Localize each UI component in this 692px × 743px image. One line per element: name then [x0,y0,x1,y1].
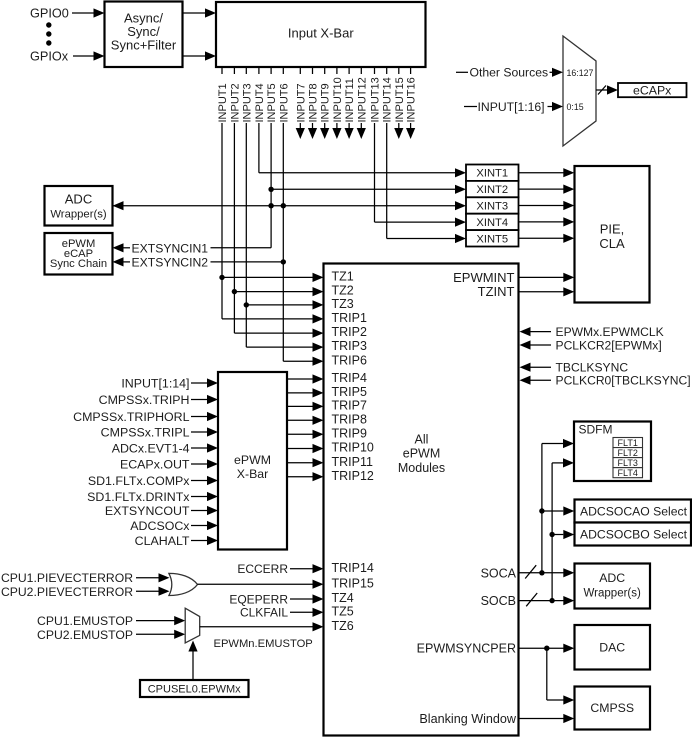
mux eCAP input select (trapezoid) [563,36,596,146]
svg-text:DAC: DAC [599,641,625,655]
svg-text:SDFM: SDFM [579,423,613,437]
wire EQEPERR to TZ4 [290,598,313,600]
svg-text:TRIP15: TRIP15 [332,576,374,590]
pin TRIP15 arrow into All ePWM Modules [313,580,324,589]
svg-text:EPWMINT: EPWMINT [453,270,514,285]
svg-text:INPUT6: INPUT6 [278,83,290,122]
svg-text:Blanking Window: Blanking Window [419,712,517,726]
wire EXTSYNCIN2 into Sync Chain [113,257,284,266]
block ADC Wrapper(s) (right) [575,564,651,609]
wire CLKFAIL to TZ5 [290,611,313,613]
junction dot INPUT6 / EXTSYNCIN2 [281,259,286,264]
svg-text:TZINT: TZINT [478,284,515,299]
svg-text:TRIP4: TRIP4 [332,371,367,385]
wire XINT3 to PIE/CLA [519,201,575,210]
svg-text:Wrapper(s): Wrapper(s) [50,209,107,221]
wire INPUT13 to XINT4 (corner) [375,218,467,227]
svg-text:PCLKCR0[TBCLKSYNC]: PCLKCR0[TBCLKSYNC] [556,374,691,388]
junction dot SOCA/ADCSOCAO [539,508,544,513]
svg-text:TRIP5: TRIP5 [332,385,367,399]
wire to ADCSOCBO Select [552,530,574,539]
wire SOCB to ADC Wrapper(s) with bus slash [520,593,575,606]
wire TBCLKSYNC into All ePWM Modules (left arrow) [520,363,552,372]
svg-text:INPUT1: INPUT1 [217,83,229,122]
wire INPUT[1:16] into mux [464,102,563,111]
svg-text:CLKFAIL: CLKFAIL [240,606,288,620]
svg-text:INPUT7: INPUT7 [295,83,307,122]
wire TRIP5 from ePWM X-Bar [287,392,313,394]
svg-text:INPUT16: INPUT16 [406,77,418,122]
svg-text:16:127: 16:127 [567,68,594,78]
pin TZ3 arrow into All ePWM Modules [313,300,324,309]
svg-text:CPU1.PIEVECTERROR: CPU1.PIEVECTERROR [1,571,133,585]
svg-text:CPU2.PIEVECTERROR: CPU2.PIEVECTERROR [1,585,133,599]
wire TZ2 [234,291,312,293]
svg-text:INPUT12: INPUT12 [356,77,368,122]
block CMPSS [575,687,651,730]
wire INPUT7 (vertical from Input X-Bar) [296,67,305,139]
junction dot SOCB [549,598,554,603]
svg-text:TRIP9: TRIP9 [332,426,367,440]
svg-text:SOCB: SOCB [481,594,516,608]
svg-text:INPUT2: INPUT2 [229,83,241,122]
svg-text:INPUT15: INPUT15 [394,77,406,122]
svg-text:XINT5: XINT5 [476,233,508,245]
svg-text:CMPSSx.TRIPL: CMPSSx.TRIPL [101,425,190,439]
wire TZINT to PIE/CLA [520,287,575,296]
svg-text:TZ6: TZ6 [332,619,354,633]
svg-text:XINT1: XINT1 [476,168,508,180]
junction dot INPUT2/TZ2 [232,289,237,294]
block ADCSOCBO Select [575,523,692,546]
wire TRIP6 (from INPUT6 corner) [283,360,312,362]
svg-text:XINT4: XINT4 [476,217,508,229]
svg-text:ADCSOCBO Select: ADCSOCBO Select [580,528,688,542]
wire INPUT11 (vertical from Input X-Bar) [345,67,354,139]
wire XINT2 to PIE/CLA [519,185,575,194]
junction dot INPUT3/TZ3 [244,302,249,307]
svg-text:Sync Chain: Sync Chain [50,258,107,270]
wire ECAPx.OUT into ePWM X-Bar [191,459,218,468]
block eCAPx [618,83,687,97]
wire ADC Wrapper(s) / XINT3 shared line [113,201,467,210]
svg-text:TRIP12: TRIP12 [332,469,374,483]
svg-text:TRIP7: TRIP7 [332,399,367,413]
wire ECCERR to TRIP14 [290,568,313,570]
wire PCLKCR0[TBCLKSYNC] into All ePWM Modules (left arrow) [520,376,552,385]
svg-text:TRIP2: TRIP2 [332,325,367,339]
wire XINT5 to PIE/CLA [519,234,575,243]
svg-text:SD1.FLTx.DRINTx: SD1.FLTx.DRINTx [87,490,190,504]
pin TRIP14 arrow into All ePWM Modules [313,564,324,573]
junction dot SOCB/ADCSOCBO [549,532,554,537]
block PIE, CLA [575,166,650,303]
svg-text:TZ1: TZ1 [332,270,354,284]
svg-text:INPUT[1:16]: INPUT[1:16] [478,100,545,114]
pin TRIP6 arrow into All ePWM Modules [313,357,324,366]
svg-text:Wrapper(s): Wrapper(s) [584,587,641,599]
wire TRIP1 (from INPUT1 corner) [222,318,313,320]
pin TRIP11 arrow into All ePWM Modules [313,458,324,467]
svg-text:SOCA: SOCA [481,566,517,580]
svg-text:INPUT5: INPUT5 [266,83,278,122]
pin TRIP3 arrow into All ePWM Modules [313,343,324,352]
svg-text:INPUT4: INPUT4 [254,83,266,122]
svg-text:ECCERR: ECCERR [237,562,288,576]
svg-text:TRIP10: TRIP10 [332,441,374,455]
svg-text:TRIP3: TRIP3 [332,339,367,353]
wire INPUT14 to XINT5 (corner) [387,234,466,243]
wire SD1.FLTx.COMPx into ePWM X-Bar [191,476,218,485]
wire EXTSYNCIN1 into Sync Chain [113,243,272,252]
pin TRIP9 arrow into All ePWM Modules [313,430,324,439]
svg-text:TRIP1: TRIP1 [332,311,367,325]
wire TRIP7 from ePWM X-Bar [287,405,313,407]
svg-text:ADC: ADC [599,571,625,585]
svg-text:PCLKCR2[EPWMx]: PCLKCR2[EPWMx] [556,338,662,352]
wire CPU2.PIEVECTERROR to OR gate [136,587,170,596]
svg-text:ADCx.EVT1-4: ADCx.EVT1-4 [112,441,190,455]
wire INPUT2 (vertical from Input X-Bar) [233,67,235,333]
wire SOCA to ADC Wrapper(s) with bus slash [520,565,575,578]
svg-text:EPWMn.EMUSTOP: EPWMn.EMUSTOP [214,638,313,650]
svg-text:TRIP6: TRIP6 [332,353,367,367]
svg-text:INPUT[1:14]: INPUT[1:14] [121,376,189,390]
wire mux output to TZ6 [200,626,313,628]
svg-text:TRIP11: TRIP11 [332,455,373,469]
wire TRIP4 from ePWM X-Bar [287,378,313,380]
svg-text:CLA: CLA [599,236,625,251]
svg-text:INPUT9: INPUT9 [320,83,332,122]
junction dot SOCA [539,570,544,575]
wire INPUT10 (vertical from Input X-Bar) [332,67,341,139]
block FLT2 (inside SDFM) [613,448,643,458]
svg-text:CLAHALT: CLAHALT [135,534,190,548]
wire SOCB up to SDFM (vertical) [552,458,574,600]
svg-text:INPUT13: INPUT13 [370,77,382,122]
pin TZ5 arrow into All ePWM Modules [313,608,324,617]
block XINT5 [466,230,519,246]
svg-text:FLT1: FLT1 [618,438,638,448]
wire CMPSSx.TRIPH into ePWM X-Bar [191,395,218,404]
pin TZ1 arrow into All ePWM Modules [313,273,324,282]
svg-text:EPWMSYNCPER: EPWMSYNCPER [417,642,516,656]
svg-text:XINT2: XINT2 [476,184,508,196]
wire GPIO0 to Async block [72,8,105,17]
svg-text:CPU1.EMUSTOP: CPU1.EMUSTOP [37,614,133,628]
svg-text:GPIO0: GPIO0 [30,7,69,21]
block ADC Wrapper(s) (left) [45,186,113,226]
wire Async to Input X-Bar (lower) [183,51,217,60]
svg-text:ePWM: ePWM [234,453,271,467]
wire EPWMINT to PIE/CLA [520,273,575,282]
pin TRIP8 arrow into All ePWM Modules [313,416,324,425]
svg-text:Input X-Bar: Input X-Bar [288,26,354,41]
wire INPUT3 (vertical from Input X-Bar) [245,67,247,347]
wire SD1.FLTx.DRINTx into ePWM X-Bar [191,492,218,501]
wire TZ3 [246,304,312,306]
ellipsis dots between GPIO0 and GPIOx [46,22,51,45]
svg-text:EPWMx.EPWMCLK: EPWMx.EPWMCLK [556,325,664,339]
svg-text:Sync+Filter: Sync+Filter [111,38,177,53]
pin TRIP10 arrow into All ePWM Modules [313,444,324,453]
wire Blanking Window to CMPSS [520,714,575,723]
block XINT1 [466,165,519,181]
wire TRIP2 (from INPUT2 corner) [234,332,312,334]
svg-text:TRIP14: TRIP14 [332,561,374,575]
svg-text:FLT4: FLT4 [618,468,638,478]
svg-text:TZ4: TZ4 [332,591,354,605]
svg-text:ePWM: ePWM [403,447,441,461]
wire INPUT15 (vertical from Input X-Bar) [394,67,403,139]
block XINT2 [466,181,519,197]
svg-text:INPUT14: INPUT14 [382,77,394,122]
junction dot INPUT6 on ADC line [281,203,286,208]
svg-text:SD1.FLTx.COMPx: SD1.FLTx.COMPx [88,474,190,488]
block Async/Sync/Sync+Filter [105,2,183,68]
svg-text:CPU2.EMUSTOP: CPU2.EMUSTOP [37,628,133,642]
block Input X-Bar [216,2,426,67]
wire CPUSEL0.EPWMx select into mux (up arrow) [188,641,197,681]
wire TRIP8 from ePWM X-Bar [287,419,313,421]
wire INPUT13 (vertical from Input X-Bar) [374,67,376,222]
wire TRIP11 from ePWM X-Bar [287,462,313,464]
wire mux output to eCAPx with bus slash [596,85,618,94]
block All ePWM Modules [324,264,519,736]
svg-text:EXTSYNCIN2: EXTSYNCIN2 [132,256,209,270]
wire XINT1 to PIE/CLA [519,168,575,177]
block ADCSOCAO Select [575,500,692,523]
wire Other Sources into mux [456,68,563,77]
block FLT1 (inside SDFM) [613,438,643,448]
pin TRIP12 arrow into All ePWM Modules [313,472,324,481]
svg-text:CMPSS: CMPSS [590,701,634,715]
pin TRIP1 arrow into All ePWM Modules [313,314,324,323]
wire INPUT[1:14] into ePWM X-Bar [191,378,218,387]
svg-text:EXTSYNCOUT: EXTSYNCOUT [105,504,190,518]
svg-text:FLT2: FLT2 [618,448,638,458]
svg-text:GPIOx: GPIOx [30,50,69,64]
block FLT4 (inside SDFM) [613,468,643,478]
wire INPUT8 (vertical from Input X-Bar) [308,67,317,139]
pin TZ2 arrow into All ePWM Modules [313,287,324,296]
block SDFM [574,422,651,482]
wire TZ1 [222,276,313,278]
wire to ADCSOCAO Select [542,506,574,515]
mux EMUSTOP select (trapezoid) [185,608,200,643]
wire TRIP10 from ePWM X-Bar [287,448,313,450]
svg-text:PIE,: PIE, [600,221,625,236]
pin TRIP4 arrow into All ePWM Modules [313,374,324,383]
pin TRIP7 arrow into All ePWM Modules [313,402,324,411]
wire EPWMSYNCPER to DAC [520,644,575,653]
wire PCLKCR2[EPWMx] into All ePWM Modules (left arrow) [520,340,552,349]
junction dot INPUT5 on ADC line [268,203,273,208]
svg-text:TZ2: TZ2 [332,284,354,298]
svg-text:TRIP8: TRIP8 [332,412,367,426]
svg-text:INPUT3: INPUT3 [241,83,253,122]
svg-text:TZ3: TZ3 [332,297,354,311]
svg-text:All: All [415,432,429,446]
svg-text:CMPSSx.TRIPHORL: CMPSSx.TRIPHORL [73,410,189,424]
wire CMPSSx.TRIPL into ePWM X-Bar [191,427,218,436]
svg-text:ADCSOCx: ADCSOCx [130,519,190,533]
block XINT4 [466,214,519,230]
svg-text:TBCLKSYNC: TBCLKSYNC [556,361,629,375]
svg-text:INPUT10: INPUT10 [332,77,344,122]
block CPUSEL0.EPWMx [140,680,249,697]
wire CMPSSx.TRIPHORL into ePWM X-Bar [191,412,218,421]
block ePWM X-Bar [218,372,287,550]
wire INPUT4 (vertical from Input X-Bar) [258,67,260,173]
wire CPU1.EMUSTOP to mux [136,616,185,625]
wire OR gate output to TRIP15 [198,583,313,585]
pin TRIP5 arrow into All ePWM Modules [313,388,324,397]
wire INPUT1 (vertical from Input X-Bar) [221,67,223,319]
svg-text:INPUT11: INPUT11 [344,78,356,122]
svg-text:X-Bar: X-Bar [237,467,268,481]
wire SOCA up to SDFM (vertical) [542,439,574,573]
block XINT3 [466,197,519,213]
pin TZ4 arrow into All ePWM Modules [313,594,324,603]
svg-text:ADC: ADC [65,191,92,206]
wire EPWMx.EPWMCLK into All ePWM Modules (left arrow) [520,327,552,336]
svg-text:EXTSYNCIN1: EXTSYNCIN1 [132,241,209,255]
wire INPUT5 (vertical from Input X-Bar) [270,67,272,248]
pin TZ6 arrow into All ePWM Modules [313,622,324,631]
block ePWM eCAP Sync Chain [45,233,113,275]
wire GPIOx to Async block [73,51,105,60]
svg-text:XINT3: XINT3 [476,201,508,213]
block FLT3 (inside SDFM) [613,458,643,468]
svg-text:TZ5: TZ5 [332,604,354,618]
wire INPUT6 (vertical from Input X-Bar) [282,67,284,361]
wire INPUT12 (vertical from Input X-Bar) [357,67,366,139]
wire EPWMSYNCPER down to CMPSS [547,648,575,704]
pin TRIP2 arrow into All ePWM Modules [313,329,324,338]
wire EXTSYNCOUT into ePWM X-Bar [191,506,218,515]
svg-text:INPUT8: INPUT8 [308,83,320,122]
wire TRIP12 from ePWM X-Bar [287,476,313,478]
wire INPUT14 (vertical from Input X-Bar) [386,67,388,239]
svg-text:ECAPx.OUT: ECAPx.OUT [120,457,190,471]
junction dot EPWMSYNCPER [544,646,549,651]
wire ADCSOCx into ePWM X-Bar [191,521,218,530]
wire CPU2.EMUSTOP to mux [136,630,185,639]
wire ADCx.EVT1-4 into ePWM X-Bar [191,443,218,452]
svg-text:Other Sources: Other Sources [470,66,549,80]
svg-text:CMPSSx.TRIPH: CMPSSx.TRIPH [99,393,190,407]
svg-text:Modules: Modules [398,461,445,475]
svg-text:EQEPERR: EQEPERR [229,592,288,606]
wire XINT4 to PIE/CLA [519,217,575,226]
wire CLAHALT into ePWM X-Bar [191,536,218,545]
svg-text:0:15: 0:15 [567,102,584,112]
wire Async to Input X-Bar (upper) [183,8,217,17]
wire INPUT9 (vertical from Input X-Bar) [320,67,329,139]
OR gate U1 [169,573,198,595]
wire CPU1.PIEVECTERROR to OR gate [136,573,170,582]
svg-text:eCAPx: eCAPx [633,83,672,97]
svg-text:CPUSEL0.EPWMx: CPUSEL0.EPWMx [148,684,241,696]
svg-text:ADCSOCAO Select: ADCSOCAO Select [580,504,688,518]
junction dot INPUT1/TZ1 [219,275,224,280]
wire TRIP9 from ePWM X-Bar [287,433,313,435]
wire INPUT4 to XINT1 (corner) [259,168,466,177]
wire INPUT5 to XINT2 [271,185,466,194]
junction dot INPUT5/XINT2 [268,187,273,192]
block DAC [575,625,651,670]
wire TRIP3 (from INPUT3 corner) [246,346,312,348]
wire INPUT16 (vertical from Input X-Bar) [406,67,415,139]
svg-text:FLT3: FLT3 [618,458,638,468]
